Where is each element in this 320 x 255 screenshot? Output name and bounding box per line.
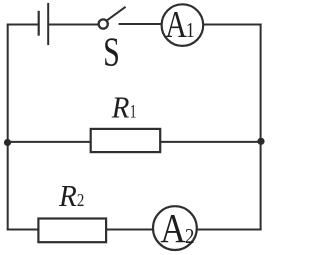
svg-text:2: 2 [77,189,84,210]
svg-text:1: 1 [186,19,195,43]
svg-text:1: 1 [130,100,137,122]
wire switch to ammeter A1 [119,23,162,25]
wire top segment battery-left [7,24,38,26]
node junction dot right [257,138,264,145]
battery cell (negative short plate) [38,11,40,36]
wire right vertical [260,24,262,231]
resistor R1 box [91,129,161,152]
svg-text:R: R [58,179,77,213]
svg-text:S: S [103,29,120,75]
switch S lever arm (open) [107,7,125,20]
svg-text:R: R [111,90,130,124]
wire left vertical [7,24,9,231]
svg-text:2: 2 [185,225,195,248]
resistor R2 box [38,219,106,243]
wire A1 to top-right corner [203,24,261,26]
node junction dot left [4,139,11,146]
wire bottom branch [7,229,262,231]
wire middle branch [7,141,261,143]
switch S pivot circle [99,19,108,28]
battery cell (positive long plate) [47,3,49,45]
wire battery to switch [48,24,98,26]
svg-text:A: A [165,4,187,46]
ammeter A1 circle [162,4,204,46]
ammeter A2 circle [153,206,197,250]
svg-text:A: A [160,206,186,251]
